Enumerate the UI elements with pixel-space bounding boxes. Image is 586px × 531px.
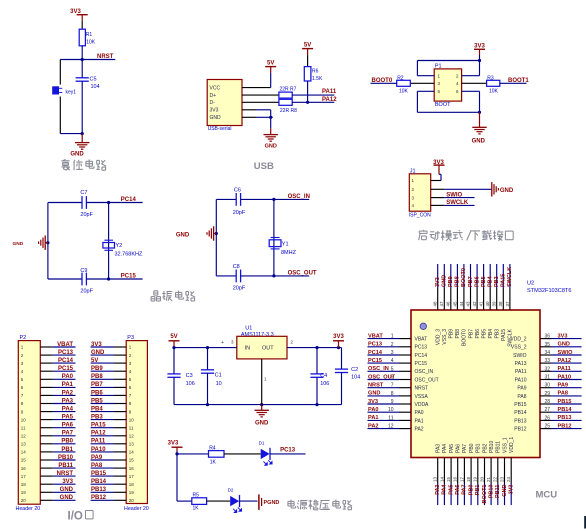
svg-text:PA8: PA8 xyxy=(517,394,526,400)
svg-text:D+: D+ xyxy=(210,93,217,99)
svg-text:104: 104 xyxy=(351,374,360,380)
svg-text:32.768KHZ: 32.768KHZ xyxy=(115,252,143,258)
svg-text:3V3: 3V3 xyxy=(91,342,102,348)
svg-text:106: 106 xyxy=(186,381,195,387)
svg-text:Header 20: Header 20 xyxy=(16,506,41,512)
svg-text:GND: GND xyxy=(472,138,486,144)
svg-text:P2: P2 xyxy=(20,335,27,341)
svg-text:PA15: PA15 xyxy=(501,329,507,341)
svg-text:PA3: PA3 xyxy=(435,485,441,495)
svg-text:GND: GND xyxy=(60,495,74,501)
svg-text:11: 11 xyxy=(129,425,134,430)
svg-text:USB-serial: USB-serial xyxy=(208,126,232,132)
svg-text:PB12: PB12 xyxy=(514,427,526,433)
svg-text:28: 28 xyxy=(545,399,551,405)
svg-text:PB14: PB14 xyxy=(514,410,526,416)
svg-text:GND: GND xyxy=(70,152,84,158)
svg-text:GND: GND xyxy=(91,350,105,356)
svg-text:1: 1 xyxy=(391,334,394,340)
svg-text:J1: J1 xyxy=(410,169,416,175)
svg-text:8MHZ: 8MHZ xyxy=(281,250,297,256)
svg-text:104: 104 xyxy=(91,84,100,90)
svg-text:PA4: PA4 xyxy=(442,444,448,453)
svg-text:2: 2 xyxy=(391,342,394,348)
svg-text:VSS_1: VSS_1 xyxy=(502,437,508,453)
svg-text:C4: C4 xyxy=(320,373,327,379)
svg-text:PB14: PB14 xyxy=(558,407,573,413)
svg-text:OSC_IN: OSC_IN xyxy=(288,194,310,200)
svg-text:BOOT0: BOOT0 xyxy=(461,268,467,287)
svg-text:PA4: PA4 xyxy=(442,484,448,495)
svg-text:20: 20 xyxy=(479,476,484,482)
svg-text:P1: P1 xyxy=(435,64,442,70)
svg-text:5V: 5V xyxy=(304,42,311,48)
svg-text:VSSA: VSSA xyxy=(415,394,429,400)
svg-text:C5: C5 xyxy=(90,76,97,82)
svg-text:PB4: PB4 xyxy=(488,329,494,339)
svg-text:PB9: PB9 xyxy=(449,329,455,339)
svg-text:10: 10 xyxy=(216,381,222,387)
svg-text:PB5: PB5 xyxy=(91,398,103,404)
svg-text:19: 19 xyxy=(129,490,135,495)
svg-text:BOOT: BOOT xyxy=(435,102,451,108)
svg-text:C3: C3 xyxy=(186,373,193,379)
svg-text:GND: GND xyxy=(500,188,514,194)
svg-text:17: 17 xyxy=(21,474,27,479)
svg-text:3V3: 3V3 xyxy=(509,485,515,495)
svg-text:PB10: PB10 xyxy=(489,441,495,453)
svg-text:PA11: PA11 xyxy=(322,89,337,95)
svg-text:PA2: PA2 xyxy=(62,390,74,396)
svg-text:10K: 10K xyxy=(86,40,96,46)
svg-text:25: 25 xyxy=(545,424,551,430)
svg-text:GND: GND xyxy=(442,275,448,287)
svg-text:USB: USB xyxy=(254,161,274,172)
svg-text:VBAT: VBAT xyxy=(57,342,73,348)
svg-text:GND: GND xyxy=(210,115,222,121)
svg-text:15: 15 xyxy=(129,458,135,463)
svg-text:GND: GND xyxy=(60,487,74,493)
svg-text:21: 21 xyxy=(486,476,491,482)
svg-text:44: 44 xyxy=(459,301,464,307)
svg-text:R4: R4 xyxy=(209,445,216,451)
svg-text:13: 13 xyxy=(129,442,135,447)
svg-text:5V: 5V xyxy=(170,334,177,340)
svg-text:14: 14 xyxy=(129,450,135,455)
svg-text:PB8: PB8 xyxy=(455,329,461,339)
svg-text:PA12: PA12 xyxy=(322,97,337,103)
svg-text:PB4: PB4 xyxy=(488,275,494,287)
svg-text:SWIO: SWIO xyxy=(446,192,462,198)
svg-text:NRST: NRST xyxy=(415,386,429,392)
svg-text:R5: R5 xyxy=(193,493,200,499)
svg-text:key1: key1 xyxy=(66,90,77,96)
svg-text:37: 37 xyxy=(505,301,510,307)
svg-text:36: 36 xyxy=(545,334,551,340)
svg-text:1K: 1K xyxy=(193,506,200,512)
svg-text:PB2: PB2 xyxy=(482,443,488,453)
svg-text:5V: 5V xyxy=(267,60,274,66)
svg-text:23: 23 xyxy=(499,476,504,482)
svg-text:PA13: PA13 xyxy=(515,361,527,367)
svg-text:19: 19 xyxy=(21,490,27,495)
svg-text:46: 46 xyxy=(446,301,451,307)
svg-text:20pF: 20pF xyxy=(80,289,93,295)
svg-text:PB10: PB10 xyxy=(58,455,74,461)
svg-text:MCU: MCU xyxy=(536,490,558,501)
svg-text:14: 14 xyxy=(439,476,444,482)
svg-text:NRST: NRST xyxy=(57,471,74,477)
svg-text:3V3: 3V3 xyxy=(368,399,378,405)
svg-text:STM32F103C8T6: STM32F103C8T6 xyxy=(527,288,571,294)
svg-text:PB9: PB9 xyxy=(91,366,103,372)
svg-text:PB6: PB6 xyxy=(474,276,480,287)
svg-text:GND: GND xyxy=(13,241,24,247)
svg-text:PB3: PB3 xyxy=(91,415,103,421)
svg-text:29: 29 xyxy=(545,391,551,397)
svg-text:12: 12 xyxy=(388,424,394,430)
svg-text:PA10: PA10 xyxy=(91,447,106,453)
svg-text:PB1: PB1 xyxy=(475,485,481,496)
svg-text:32: 32 xyxy=(545,366,551,372)
svg-text:18: 18 xyxy=(21,482,27,487)
svg-text:PC14: PC14 xyxy=(415,353,428,359)
svg-text:OSC_IN: OSC_IN xyxy=(368,366,389,372)
svg-text:20: 20 xyxy=(21,498,27,503)
svg-text:PA6: PA6 xyxy=(456,444,462,453)
svg-text:PC15: PC15 xyxy=(121,273,137,279)
svg-text:VDD_1: VDD_1 xyxy=(509,437,515,453)
svg-text:PA5: PA5 xyxy=(449,444,455,453)
svg-text:PA12: PA12 xyxy=(558,358,572,364)
svg-text:PB8: PB8 xyxy=(455,276,461,287)
svg-text:10: 10 xyxy=(388,407,394,413)
svg-text:PB11: PB11 xyxy=(58,463,73,469)
svg-text:OSC_OUT: OSC_OUT xyxy=(368,374,396,380)
svg-text:PA10: PA10 xyxy=(515,377,527,383)
svg-text:PB13: PB13 xyxy=(91,487,107,493)
svg-text:SWIO: SWIO xyxy=(513,353,526,359)
svg-text:PB11: PB11 xyxy=(496,441,502,453)
svg-text:16: 16 xyxy=(21,466,27,471)
svg-text:PA7: PA7 xyxy=(62,431,74,437)
svg-text:Header 20: Header 20 xyxy=(124,506,149,512)
svg-text:20: 20 xyxy=(129,498,135,503)
svg-text:BOOT0: BOOT0 xyxy=(462,329,468,346)
svg-text:PA0: PA0 xyxy=(62,374,74,380)
svg-text:PA11: PA11 xyxy=(558,366,571,372)
svg-text:C1: C1 xyxy=(215,373,222,379)
svg-text:45: 45 xyxy=(452,301,457,307)
svg-text:OSC_OUT: OSC_OUT xyxy=(415,377,439,383)
svg-text:PA8: PA8 xyxy=(91,463,103,469)
svg-text:I/O: I/O xyxy=(68,511,83,523)
svg-text:PA11: PA11 xyxy=(91,439,106,445)
svg-text:3V3: 3V3 xyxy=(168,441,179,447)
svg-text:PB14: PB14 xyxy=(91,479,107,485)
svg-text:D-: D- xyxy=(210,100,216,106)
svg-text:P3: P3 xyxy=(127,335,134,341)
svg-text:48: 48 xyxy=(433,301,438,307)
svg-text:C8: C8 xyxy=(233,264,240,270)
svg-text:PB13: PB13 xyxy=(558,415,572,421)
svg-text:PA3: PA3 xyxy=(62,398,74,404)
svg-text:PA9: PA9 xyxy=(558,383,568,389)
svg-text:SWCLK: SWCLK xyxy=(507,267,513,287)
svg-text:12: 12 xyxy=(21,434,27,439)
svg-text:PB6: PB6 xyxy=(91,390,103,396)
svg-text:BOOT0: BOOT0 xyxy=(372,78,393,84)
svg-text:20pF: 20pF xyxy=(80,212,93,218)
svg-text:13: 13 xyxy=(433,476,438,482)
svg-text:Y2: Y2 xyxy=(116,243,123,249)
svg-text:PB6: PB6 xyxy=(475,329,481,339)
svg-text:PC15: PC15 xyxy=(58,366,74,372)
svg-text:PC14: PC14 xyxy=(368,350,383,356)
svg-text:PB7: PB7 xyxy=(91,382,103,388)
svg-text:PA15: PA15 xyxy=(501,274,507,287)
svg-text:PA5: PA5 xyxy=(62,415,74,421)
svg-text:GND: GND xyxy=(265,144,277,150)
svg-text:41: 41 xyxy=(479,301,484,307)
svg-text:C7: C7 xyxy=(80,190,87,196)
svg-text:OSC_IN: OSC_IN xyxy=(415,369,434,375)
svg-text:42: 42 xyxy=(472,301,477,307)
svg-text:5: 5 xyxy=(391,366,394,372)
svg-text:PA0: PA0 xyxy=(368,407,378,413)
svg-text:+: + xyxy=(221,340,224,346)
svg-text:GND: GND xyxy=(502,484,508,496)
svg-text:PC13: PC13 xyxy=(368,342,382,348)
svg-text:PA9: PA9 xyxy=(91,455,103,461)
svg-text:SWCLK: SWCLK xyxy=(446,200,469,206)
svg-text:106: 106 xyxy=(320,381,329,387)
svg-text:3V3: 3V3 xyxy=(62,479,73,485)
svg-text:PB12: PB12 xyxy=(91,495,107,501)
svg-text:PA1: PA1 xyxy=(62,382,74,388)
svg-text:3V3: 3V3 xyxy=(210,108,219,114)
svg-text:PB3: PB3 xyxy=(494,276,500,287)
svg-text:SWCLK: SWCLK xyxy=(508,328,514,346)
svg-text:7: 7 xyxy=(391,383,394,389)
svg-text:GND: GND xyxy=(558,342,570,348)
svg-text:20pF: 20pF xyxy=(233,285,246,291)
svg-text:IN: IN xyxy=(245,346,251,352)
svg-text:34: 34 xyxy=(545,350,551,356)
svg-text:PA9: PA9 xyxy=(517,386,526,392)
svg-text:PB3: PB3 xyxy=(495,329,501,339)
svg-text:PC13: PC13 xyxy=(415,345,428,351)
svg-text:VDDA: VDDA xyxy=(415,402,430,408)
svg-text:40: 40 xyxy=(485,301,490,307)
svg-text:PB15: PB15 xyxy=(514,402,526,408)
svg-text:PB0: PB0 xyxy=(61,439,73,445)
svg-text:39: 39 xyxy=(492,301,497,307)
svg-text:38: 38 xyxy=(498,301,503,307)
svg-text:BOOT1: BOOT1 xyxy=(482,485,488,504)
svg-text:U2: U2 xyxy=(527,281,534,287)
svg-text:PC13: PC13 xyxy=(58,350,74,356)
svg-text:15: 15 xyxy=(21,458,27,463)
svg-text:VBAT: VBAT xyxy=(415,337,428,343)
svg-text:R1: R1 xyxy=(86,32,93,38)
svg-text:26: 26 xyxy=(545,415,551,421)
svg-text:PB15: PB15 xyxy=(558,399,572,405)
svg-text:PA1: PA1 xyxy=(415,418,424,424)
svg-text:PB9: PB9 xyxy=(448,276,454,287)
svg-text:17: 17 xyxy=(459,476,464,482)
svg-text:R6: R6 xyxy=(312,69,319,75)
svg-text:VDD_3: VDD_3 xyxy=(436,329,442,345)
svg-text:PA5: PA5 xyxy=(448,485,454,495)
svg-text:27: 27 xyxy=(545,407,551,413)
svg-text:33: 33 xyxy=(545,358,551,364)
svg-text:PA6: PA6 xyxy=(62,423,74,429)
svg-text:10K: 10K xyxy=(489,89,499,95)
svg-text:16: 16 xyxy=(453,476,458,482)
svg-text:18: 18 xyxy=(129,482,135,487)
svg-text:PA0: PA0 xyxy=(415,410,424,416)
svg-text:BOOT1: BOOT1 xyxy=(508,78,529,84)
svg-text:PA3: PA3 xyxy=(436,444,442,453)
svg-text:PA2: PA2 xyxy=(368,423,378,429)
svg-text:D2: D2 xyxy=(228,488,234,493)
svg-text:17: 17 xyxy=(129,474,135,479)
svg-text:15: 15 xyxy=(446,476,451,482)
svg-text:ISP_CON: ISP_CON xyxy=(409,213,431,219)
svg-text:PA11: PA11 xyxy=(515,369,527,375)
svg-text:PC14: PC14 xyxy=(58,358,74,364)
svg-text:5V: 5V xyxy=(91,358,98,364)
svg-text:PA15: PA15 xyxy=(91,423,106,429)
svg-text:GND: GND xyxy=(255,420,269,426)
svg-text:C2: C2 xyxy=(351,367,358,373)
svg-text:GND: GND xyxy=(368,391,380,397)
svg-text:19: 19 xyxy=(473,476,478,482)
svg-text:PA12: PA12 xyxy=(91,431,106,437)
svg-text:PA7: PA7 xyxy=(462,485,468,495)
svg-text:22: 22 xyxy=(493,476,498,482)
svg-text:PA10: PA10 xyxy=(558,374,572,380)
svg-text:3V3: 3V3 xyxy=(435,277,441,287)
svg-text:1.5K: 1.5K xyxy=(312,76,323,82)
svg-text:PB4: PB4 xyxy=(91,407,103,413)
svg-text:PA2: PA2 xyxy=(415,427,424,433)
svg-text:4: 4 xyxy=(391,358,394,364)
svg-text:PA7: PA7 xyxy=(462,444,468,453)
svg-text:PB0: PB0 xyxy=(469,443,475,453)
svg-text:GND: GND xyxy=(176,232,190,238)
svg-text:VSS_3: VSS_3 xyxy=(442,329,448,345)
svg-text:PB13: PB13 xyxy=(514,418,526,424)
svg-text:3: 3 xyxy=(391,350,394,356)
svg-text:43: 43 xyxy=(465,301,470,307)
svg-text:10: 10 xyxy=(129,417,135,422)
svg-text:PB8: PB8 xyxy=(91,374,103,380)
svg-text:R2: R2 xyxy=(397,75,404,81)
svg-text:14: 14 xyxy=(21,450,27,455)
svg-text:PB15: PB15 xyxy=(91,471,107,477)
svg-text:OUT: OUT xyxy=(262,346,274,352)
svg-text:PB10: PB10 xyxy=(488,485,494,499)
svg-text:35: 35 xyxy=(545,342,551,348)
svg-text:PA6: PA6 xyxy=(455,485,461,495)
svg-text:22R R7: 22R R7 xyxy=(280,87,297,93)
svg-text:11: 11 xyxy=(388,415,393,421)
svg-text:D1: D1 xyxy=(259,440,265,445)
svg-text:10: 10 xyxy=(21,417,27,422)
svg-text:PB1: PB1 xyxy=(476,443,482,453)
svg-text:1K: 1K xyxy=(210,459,217,465)
svg-text:VCC: VCC xyxy=(210,86,221,92)
svg-text:8: 8 xyxy=(391,391,394,397)
svg-text:PB5: PB5 xyxy=(481,276,487,287)
svg-text:PB7: PB7 xyxy=(468,329,474,339)
svg-text:OSC_OUT: OSC_OUT xyxy=(288,271,317,277)
svg-text:PB7: PB7 xyxy=(468,276,474,287)
svg-text:PA4: PA4 xyxy=(62,407,74,413)
svg-text:PA1: PA1 xyxy=(368,415,378,421)
svg-text:PC15: PC15 xyxy=(415,361,428,367)
svg-text:PB0: PB0 xyxy=(468,485,474,496)
svg-text:U1: U1 xyxy=(245,325,252,331)
svg-text:10K: 10K xyxy=(399,89,409,95)
svg-text:47: 47 xyxy=(439,301,444,307)
svg-text:20pF: 20pF xyxy=(233,210,246,216)
svg-text:11: 11 xyxy=(21,425,26,430)
svg-text:Y1: Y1 xyxy=(282,241,289,247)
svg-text:C6: C6 xyxy=(234,188,241,194)
svg-text:12: 12 xyxy=(129,434,135,439)
svg-text:PA8: PA8 xyxy=(558,391,568,397)
svg-text:PB5: PB5 xyxy=(481,329,487,339)
svg-text:24: 24 xyxy=(506,476,511,482)
svg-text:R3: R3 xyxy=(487,75,494,81)
svg-text:PC14: PC14 xyxy=(121,197,137,203)
svg-text:PB1: PB1 xyxy=(61,447,73,453)
svg-text:PC15: PC15 xyxy=(368,358,382,364)
svg-text:22R R8: 22R R8 xyxy=(280,108,297,114)
svg-text:31: 31 xyxy=(545,375,551,381)
svg-text:9: 9 xyxy=(391,399,394,405)
svg-text:30: 30 xyxy=(545,383,551,389)
svg-text:PC13: PC13 xyxy=(280,447,296,453)
svg-text:16: 16 xyxy=(129,466,135,471)
svg-text:C9: C9 xyxy=(80,268,87,274)
svg-text:13: 13 xyxy=(21,442,27,447)
svg-text:PB12: PB12 xyxy=(558,423,572,429)
svg-text:3V3: 3V3 xyxy=(558,333,568,339)
svg-text:NRST: NRST xyxy=(368,383,384,389)
svg-text:VBAT: VBAT xyxy=(368,333,383,339)
svg-text:PGND: PGND xyxy=(264,500,280,506)
svg-text:18: 18 xyxy=(466,476,471,482)
svg-text:PB11: PB11 xyxy=(495,485,501,498)
svg-text:3V3: 3V3 xyxy=(333,334,344,340)
svg-text:SWIO: SWIO xyxy=(558,350,574,356)
